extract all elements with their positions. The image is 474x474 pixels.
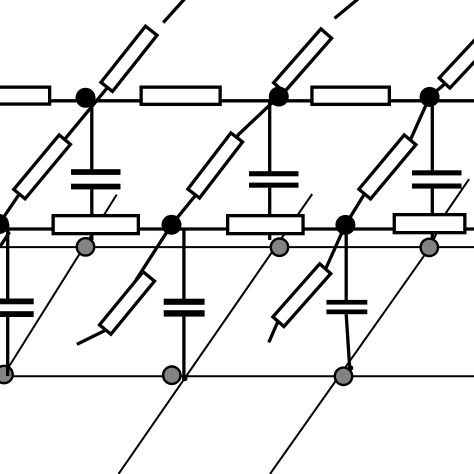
node N1 [76,88,96,108]
resistor Rd2 (diagonal above N1) [101,26,157,91]
node N0b (left edge, partial) [0,214,9,234]
capacitor C4 plates [0,299,34,305]
wire: diagonal D2 lower (N1b down-left) [77,225,172,344]
resistor Rd5 (diagonal N2b-N3) [359,135,416,199]
resistor R5 (second rail, middle) [228,216,303,234]
resistor R1 (top rail, left, clipped) [0,87,50,104]
node: ground node GA1 [77,238,94,255]
capacitor C6 bottom wire [346,314,349,366]
node N2 [269,87,289,107]
wire: diagonal D1 main (Rd1 through H1 to Rd2) [18,88,107,195]
wire: diagonal D1 continuation segment above gap [163,0,184,23]
resistor Rd3 (diagonal N1b-N2) [188,133,243,198]
node: ground node GA2 [271,239,288,256]
capacitor C6 plates [326,300,367,305]
capacitor C5 plates [164,299,205,305]
capacitor C2 top wire [268,100,271,172]
capacitor C5 bottom wire [182,317,185,378]
capacitor C6 top wire [345,225,348,301]
wire: diagonal D3 (N2b to N3) [345,97,429,225]
wire: thin diagonal tD3 [270,247,430,474]
resistor R4 (second rail, left) [53,216,138,234]
wire: thin diagonal tD2 [119,194,313,474]
resistor Rd8 (diagonal below N2b) [273,264,331,327]
resistor R3 (top rail, right) [312,87,389,104]
node: ground node GB1 [163,367,180,384]
wire: thin ground rail B [0,375,474,377]
node: ground node GB0 [0,366,13,383]
capacitor C5 top wire [182,228,185,299]
resistor Rd7 (diagonal below N1b) [100,272,155,334]
junction dot at C5 wire end [182,376,188,382]
wire: top horizontal rail H1 [0,99,474,102]
resistor Rd4 (diagonal above N2) [274,29,332,92]
wire: diagonal D2 (N1b to N2) [172,97,279,225]
wire: diagonal D3 upper (N3 up-right) [430,57,470,97]
wire: thin ground rail A [0,246,474,248]
capacitor C1 top wire [90,100,93,170]
resistor R2 (top rail, middle) [141,87,220,104]
node: ground node GA3 [421,239,438,256]
capacitor C2 plates [249,171,299,176]
wire: thin diagonal tD1 [4,195,117,375]
resistor R6 (second rail, right) [394,215,465,233]
wire: diagonal D1 lead from N0b to Rd1 [0,195,18,224]
node: ground node GB2 [335,368,352,385]
node N3 [420,87,440,107]
junction dot at C6 wire end [348,365,354,371]
capacitor C3 bottom wire [431,189,434,240]
wire: diagonal D1 lower stub [0,228,9,247]
capacitor C3 plates [412,170,462,175]
wire: diagonal D2 upper (N2 up-right) [278,33,327,97]
wire: second horizontal rail H2 [0,227,474,230]
capacitor C4 top wire (left edge, partial) [6,224,9,299]
capacitor C4 bottom wire [6,317,9,376]
wire: diagonal D2 continuation segment above gap [335,0,359,18]
capacitor C2 bottom wire [268,188,271,240]
node N2b [335,215,355,235]
resistor Rd1 (diagonal, left edge) [14,135,71,199]
capacitor C1 bottom wire [90,189,93,240]
capacitor C1 plates [71,169,121,175]
resistor Rd6 (diagonal above N3, clipped) [439,26,474,88]
capacitor C3 top wire [431,100,434,171]
wire: diagonal D3 lower (N2b down-left) [269,225,346,343]
node N1b [162,215,182,235]
wire: thin diagonal tD3 upper piece [430,179,469,247]
